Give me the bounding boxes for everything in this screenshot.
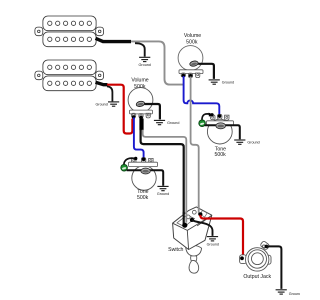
node V2 lug2 [139, 116, 143, 120]
svg-text:Ground: Ground [247, 140, 259, 144]
capacitor C2 (green) [121, 164, 128, 171]
output jack J1 [240, 241, 271, 272]
svg-text:Ground: Ground [207, 242, 219, 246]
svg-text:Switch: Switch [168, 247, 183, 253]
ground symbol SW1 [207, 237, 218, 241]
ground symbol P1 [139, 57, 150, 61]
node T1 lug2 (blue end) [218, 114, 222, 118]
svg-text:Ground: Ground [139, 63, 151, 67]
wire V2 lug1 to tone pot T2 (blue) [134, 118, 144, 159]
ground symbol V2 [154, 120, 165, 124]
ground symbol P2 [108, 102, 119, 106]
node J1 tip lug [265, 245, 269, 249]
node V2 lug1 [132, 115, 136, 119]
jumper T1 lug1 to cap C1 [202, 114, 211, 121]
wire V1 wiper to ground (black) [199, 64, 214, 79]
svg-text:500k: 500k [137, 195, 149, 201]
node T2 lug2 (blue end) [142, 157, 146, 161]
svg-text:500k: 500k [214, 152, 226, 158]
node SW1 output lug [190, 218, 194, 222]
wire P1 hot (gray) to volume pot V1 [131, 41, 183, 84]
switch SW1 body [173, 207, 212, 250]
svg-text:Output Jack: Output Jack [243, 274, 271, 280]
wire V2 wiper to ground (black) [145, 104, 160, 119]
svg-text:Ground: Ground [167, 121, 179, 125]
node J1 sleeve (red end) [240, 256, 244, 260]
ground symbol T2 [157, 186, 168, 190]
svg-text:Tone: Tone [215, 146, 226, 152]
humbucker pickup P2 (bridge) [35, 60, 104, 91]
node T2 lug1 [134, 157, 137, 160]
wire P1 bare/shield to ground [135, 43, 145, 56]
wire C2 to ground (black) [127, 170, 164, 186]
wire V1 lug2 to switch (gray) [191, 77, 200, 215]
svg-text:500k: 500k [134, 84, 146, 90]
ground symbol V1 [209, 80, 220, 84]
wire J1 tip to ground (black) [266, 246, 281, 289]
volume pot V1 (500k) [178, 46, 203, 78]
svg-text:Ground: Ground [157, 192, 169, 196]
ground symbol T1 [234, 140, 245, 144]
svg-text:Ground: Ground [222, 81, 234, 85]
wiper lug T1 (ellipse) [216, 123, 226, 129]
humbucker pickup P1 (neck) [35, 16, 104, 47]
wire C1 to ground (black) [205, 125, 240, 139]
svg-text:Tone: Tone [137, 189, 148, 195]
wire P2 hot (red) to volume pot V2 lug1 [107, 85, 132, 134]
node SW1 input (dot A) [182, 223, 187, 228]
jumper T2 lug1 to cap C2 [124, 158, 134, 166]
ground symbol J1 [276, 290, 287, 294]
wire V2 lug2 stub (thick black) [139, 119, 143, 131]
wire V2 lug2 to switch (black) [141, 130, 184, 224]
wiper lug T2 (ellipse) [141, 168, 150, 174]
wire V1 lug1 to tone pot T1 (blue) [184, 76, 220, 115]
svg-text:Ground: Ground [95, 102, 107, 106]
wire ends entering switch top face [184, 205, 199, 224]
svg-text:Ground: Ground [289, 292, 300, 296]
volume pot V2 (500k) [128, 88, 153, 118]
switch toggle lever [186, 245, 202, 273]
svg-text:Volume: Volume [184, 33, 201, 39]
node V1 lug2 [189, 74, 193, 78]
node T1 lug1 [210, 113, 213, 116]
node V1 lug1 [182, 74, 186, 78]
tone pot T2 (500k, left) [129, 158, 158, 191]
wire P1 cable jacket (thick black) [96, 38, 132, 41]
wire SW1 to output jack (red) [200, 215, 243, 256]
tone pot T1 (500k, right) [207, 114, 234, 144]
wire P2 bare/shield to ground [107, 86, 112, 101]
node SW1 lug (dot B, gray end) [198, 212, 202, 216]
svg-text:Volume: Volume [131, 77, 148, 83]
svg-text:500k: 500k [186, 40, 198, 46]
wire SW1 to ground (black) [192, 220, 213, 236]
wire P2 cable jacket (thick black) [96, 82, 108, 84]
wire V2 lug2 to switch (gray) [143, 130, 187, 223]
capacitor C1 (green) [199, 120, 206, 127]
